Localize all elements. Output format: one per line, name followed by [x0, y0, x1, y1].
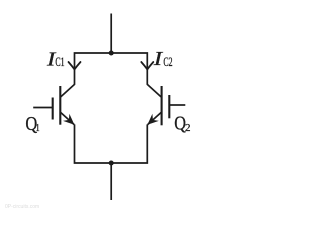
svg-text:2: 2 — [185, 122, 191, 134]
svg-text:0P-circuits.com: 0P-circuits.com — [5, 204, 39, 210]
svg-text:C2: C2 — [163, 56, 172, 69]
svg-text:I: I — [153, 47, 164, 69]
svg-text:1: 1 — [36, 123, 40, 134]
svg-text:C1: C1 — [55, 56, 64, 69]
